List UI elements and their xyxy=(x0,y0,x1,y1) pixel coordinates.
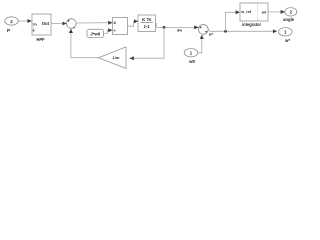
svg-text:x: x xyxy=(113,20,116,25)
svg-text:P: P xyxy=(7,28,11,34)
wire 1/m -> sum1 bottom (minus) xyxy=(71,29,98,58)
wire integrator -> angle port xyxy=(268,11,285,13)
wire HPF -> sum1 xyxy=(51,22,66,24)
svg-text:K Ts: K Ts xyxy=(142,17,152,22)
svg-text:w*: w* xyxy=(208,33,214,37)
divide block xyxy=(113,18,128,35)
inport 1 "w0" xyxy=(184,49,198,65)
wire J*w0 -> divide (bottom input) xyxy=(104,30,113,33)
svg-text:In: In xyxy=(33,21,37,26)
outport 1 "w*" xyxy=(279,28,293,44)
svg-text:wt: wt xyxy=(261,10,267,14)
svg-text:w*: w* xyxy=(284,38,290,43)
svg-text:+: + xyxy=(67,18,70,23)
feedback wire down to gain 1/m xyxy=(130,27,164,58)
sum2 circle xyxy=(198,25,208,35)
svg-text:1/m: 1/m xyxy=(113,55,120,60)
wire sum1 -> divide (top input) xyxy=(76,22,112,24)
subsystem HPF xyxy=(32,14,51,42)
wire sum2 -> w* port with junction xyxy=(208,30,277,32)
wire up to integrator xyxy=(226,12,240,31)
discrete-time integrator K Ts/(z-1) xyxy=(138,15,156,32)
constant J*w0 xyxy=(87,29,104,37)
svg-text:Out: Out xyxy=(42,21,50,26)
junction dot feedback xyxy=(163,26,166,29)
svg-text:angle: angle xyxy=(283,17,295,22)
wire P -> HPF xyxy=(18,20,31,22)
svg-text:integrator: integrator xyxy=(242,22,262,27)
svg-text:−: − xyxy=(73,26,76,31)
svg-text:dw: dw xyxy=(177,29,182,33)
svg-text:+: + xyxy=(199,25,202,30)
wire K -> sum2 (dw) xyxy=(156,23,199,27)
wire w0 -> sum2 bottom xyxy=(198,35,202,53)
wire divide -> K Ts/(z-1) xyxy=(128,21,138,26)
outport 2 "angle" xyxy=(283,8,297,22)
junction dot w* xyxy=(224,30,227,33)
svg-text:HPF: HPF xyxy=(36,37,45,42)
sum1 circle xyxy=(67,18,77,30)
gain triangle 1/m (points left) xyxy=(98,47,126,68)
inport 2 "P" xyxy=(5,17,19,34)
svg-text:+: + xyxy=(205,30,208,35)
svg-text:w_ref: w_ref xyxy=(240,10,252,14)
subsystem integrator xyxy=(240,3,268,27)
svg-text:z-1: z-1 xyxy=(144,24,150,29)
svg-text:w0: w0 xyxy=(188,59,195,64)
svg-text:J*w0: J*w0 xyxy=(90,31,101,36)
